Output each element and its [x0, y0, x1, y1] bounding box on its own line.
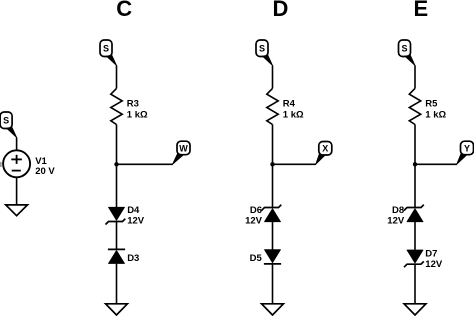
svg-text:12V: 12V [127, 215, 145, 226]
svg-text:R5: R5 [425, 99, 438, 110]
svg-text:D6: D6 [250, 205, 262, 216]
svg-text:S: S [3, 116, 9, 126]
svg-text:D7: D7 [425, 248, 437, 259]
svg-text:X: X [322, 144, 328, 154]
svg-text:D3: D3 [127, 253, 139, 264]
svg-text:R3: R3 [127, 99, 139, 110]
svg-text:D4: D4 [127, 205, 140, 216]
svg-text:1 kΩ: 1 kΩ [425, 109, 446, 120]
svg-text:D5: D5 [250, 253, 263, 264]
svg-text:S: S [401, 44, 407, 54]
svg-text:R4: R4 [283, 99, 296, 110]
svg-text:D8: D8 [392, 205, 404, 216]
svg-text:12V: 12V [387, 215, 405, 226]
svg-text:D: D [272, 0, 288, 21]
svg-text:S: S [259, 44, 265, 54]
svg-text:W: W [179, 143, 188, 153]
svg-text:1 kΩ: 1 kΩ [127, 109, 148, 120]
svg-text:20 V: 20 V [35, 166, 55, 177]
svg-text:12V: 12V [245, 215, 263, 226]
svg-text:12V: 12V [425, 259, 443, 270]
svg-text:E: E [414, 0, 429, 21]
svg-text:1 kΩ: 1 kΩ [283, 109, 304, 120]
svg-text:C: C [116, 0, 132, 21]
svg-text:S: S [103, 44, 109, 54]
svg-text:Y: Y [464, 143, 470, 153]
